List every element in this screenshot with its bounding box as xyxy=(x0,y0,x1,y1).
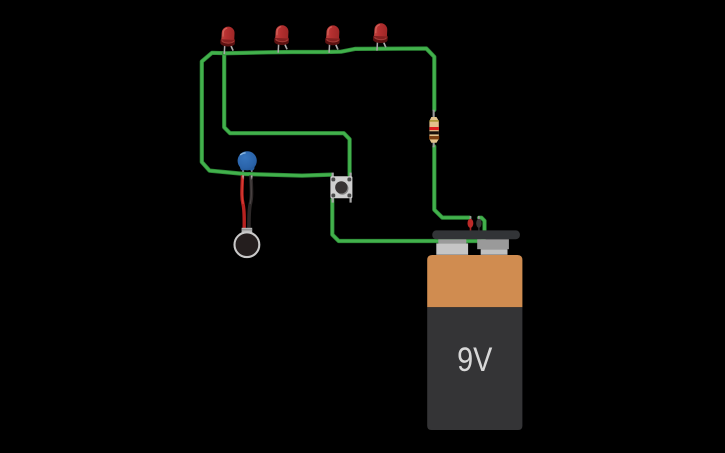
battery 9V leads: black - tip xyxy=(476,216,481,231)
thermistor R2 body xyxy=(238,151,257,170)
wire: resistor bottom to battery + tip xyxy=(434,147,469,218)
wire: LED1 left leg down to pushbutton pin 2 xyxy=(224,53,349,175)
battery 9V leads: red + tip xyxy=(468,216,474,231)
svg-text:9V: 9V xyxy=(457,339,492,378)
pushbutton S1 pins xyxy=(332,173,352,203)
resistor R1 body xyxy=(429,117,439,143)
resistor R1 lead bottom xyxy=(433,142,435,147)
wire: top chain LED1..LED4 then down to resistor xyxy=(225,49,435,111)
battery 9V right terminal xyxy=(477,239,509,255)
wire: pushbutton pin 3 down, right along battery, up to - tip xyxy=(332,200,484,242)
LED1 xyxy=(220,26,236,54)
vibration motor M1 black lead xyxy=(249,175,252,228)
LED2 xyxy=(274,25,290,53)
battery 9V left terminal xyxy=(436,239,468,254)
vibration motor M1 red lead xyxy=(242,175,244,228)
vibration motor M1 body xyxy=(235,232,260,257)
wire: left loop from LED1 left leg to pushbutton pin 1 (via thermistor) xyxy=(202,53,331,176)
LED4 xyxy=(372,23,388,51)
thermistor R2 legs xyxy=(242,167,244,172)
resistor R1 lead top xyxy=(433,110,435,118)
battery 9V cap bar xyxy=(432,230,520,239)
vibration motor M1 tab xyxy=(242,228,253,233)
pushbutton S1 body xyxy=(330,176,352,198)
LED3 xyxy=(325,25,341,53)
battery 9V body xyxy=(427,255,522,430)
